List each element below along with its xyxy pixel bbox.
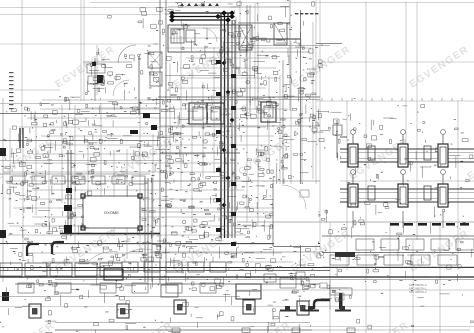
duct run small taps: [333, 120, 474, 200]
east room cleared: [274, 184, 318, 245]
footing symbols: [29, 300, 309, 318]
left sheet edge: [2, 98, 4, 282]
labelled box bottom-left: [104, 269, 123, 280]
big room with label: [83, 196, 140, 228]
big room interior cleared: [84, 197, 139, 227]
dark bar left of bands: [335, 252, 355, 257]
bottom service bands: [0, 268, 474, 331]
top-right wall stub: [316, 43, 342, 45]
fan-coil unit box: [274, 23, 287, 45]
long thin bottom lines: [160, 326, 474, 328]
central vertical risers: [221, 5, 250, 238]
corridor box row y175: [0, 174, 150, 184]
duct run lower: [340, 170, 474, 207]
dark service blobs left riser: [64, 113, 157, 233]
central block west wall pair: [159, 0, 161, 284]
pedestals: [280, 306, 351, 312]
corridor line y222: [237, 221, 474, 223]
left margin dimension ticks: [9, 72, 14, 109]
right band ticks: [322, 98, 462, 101]
duct elbows: [27, 244, 39, 256]
duct run upper: [340, 130, 474, 167]
svg-text:NPC HBOTH-0: NPC HBOTH-0: [409, 283, 427, 287]
bottom box row 1: [0, 262, 226, 276]
central block internal lattice: [4, 17, 317, 262]
svg-text:OXOME: OXOME: [104, 210, 119, 215]
bottom box row 2: [18, 283, 216, 293]
bottom-right box band 2: [322, 255, 474, 267]
room top walls: [230, 6, 290, 8]
top-center equipment room: [168, 25, 247, 52]
top tick row: [180, 3, 219, 6]
dark top dashes right: [390, 223, 469, 226]
piping cluster boxes: [264, 272, 305, 288]
bottom-center dark boxes: [236, 284, 261, 299]
central block walls: [0, 10, 320, 268]
shaft squares: [189, 103, 207, 124]
central riser dark taps: [216, 60, 236, 246]
left riser pairs: [20, 128, 152, 282]
floor-mounted duct elbow cluster: [314, 288, 352, 309]
flex duct arcs: [88, 252, 118, 262]
run2 drop legs: [353, 211, 443, 228]
bottom-right box band 1: [322, 236, 474, 253]
irregular rooms internal detail: [320, 280, 348, 310]
bottom tick boxes: [172, 328, 355, 333]
top manifold pipes: [170, 11, 234, 22]
left-center rooms: [94, 58, 96, 101]
tiny text row: [295, 13, 318, 14]
stair X-box: [239, 25, 252, 50]
door arc top-left: [118, 45, 136, 63]
bottom-right text block: [409, 283, 427, 294]
